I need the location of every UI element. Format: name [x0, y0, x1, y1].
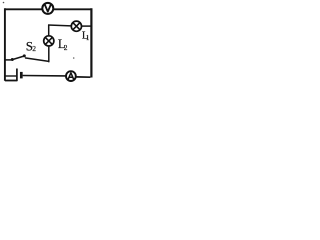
wire ammeter to bottom-right: [76, 76, 90, 78]
svg-text:1: 1: [86, 34, 90, 42]
voltmeter V: [42, 3, 53, 14]
wire left edge: [4, 8, 6, 81]
battery long plate: [16, 69, 18, 82]
wire branch to lamp L1: [48, 24, 71, 27]
speck center-right: [73, 57, 75, 59]
lamp L1: [71, 21, 81, 31]
lamp L2: [44, 36, 54, 46]
wire right edge: [90, 8, 92, 77]
wire switch to lamp L2: [25, 58, 49, 62]
wire L1 to right edge: [82, 25, 91, 27]
label L2: [58, 37, 68, 52]
svg-text:2: 2: [32, 44, 36, 53]
wire switch stub: [5, 59, 11, 61]
battery short plate: [20, 72, 23, 79]
wire top-left to voltmeter: [5, 8, 42, 10]
label L1: [82, 30, 90, 41]
paper background: [0, 0, 96, 86]
speck top-left: [3, 2, 5, 4]
switch S2 left contact: [11, 58, 14, 61]
switch S2 lever: [12, 56, 24, 60]
label S2: [26, 38, 37, 53]
ammeter A: [66, 71, 76, 81]
wire up to L2 bottom: [48, 47, 50, 63]
wire bottom-left upper: [5, 75, 16, 77]
wire bottom-left lower: [5, 80, 17, 82]
svg-text:2: 2: [64, 43, 68, 52]
switch S2 right contact: [23, 54, 26, 57]
wire battery to ammeter: [23, 75, 66, 77]
wire L2 top up: [48, 25, 50, 36]
wire voltmeter to top-right: [54, 8, 91, 10]
